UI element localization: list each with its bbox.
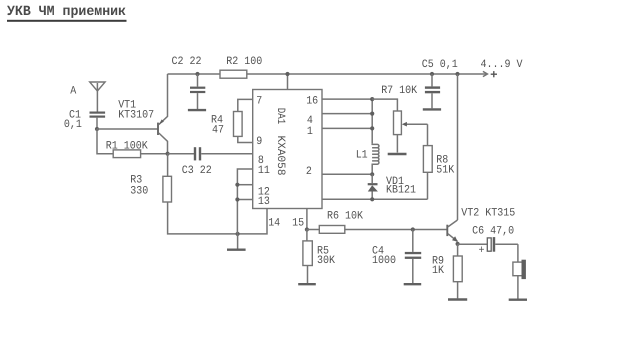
- capacitor C5 0,1: [422, 59, 458, 109]
- wire top supply rail: [168, 73, 488, 75]
- node antenna/C1/base junction: [95, 127, 99, 131]
- svg-text:A: A: [70, 85, 76, 97]
- wire base of VT1: [97, 128, 158, 130]
- svg-text:KXA058: KXA058: [274, 136, 286, 176]
- svg-text:9: 9: [256, 136, 262, 148]
- svg-text:47: 47: [212, 124, 224, 136]
- svg-text:L1: L1: [356, 150, 368, 162]
- capacitor C4 1000: [372, 230, 421, 285]
- node VT2 emitter: [456, 242, 460, 246]
- node C5 on rail: [430, 72, 434, 76]
- node VT2 collector branch on rail: [455, 72, 459, 76]
- svg-text:C6 47,0: C6 47,0: [472, 226, 514, 238]
- resistor R9 1K: [432, 244, 467, 300]
- svg-text:15: 15: [292, 217, 304, 229]
- svg-text:4...9 V: 4...9 V: [481, 59, 523, 71]
- svg-text:DA1: DA1: [274, 108, 286, 125]
- resistor R4 47 with pin7/pin9 wires: [211, 99, 253, 142]
- resistor R3 330: [130, 154, 267, 234]
- svg-text:13: 13: [258, 196, 270, 208]
- svg-text:R6 10K: R6 10K: [327, 211, 363, 223]
- resistor R8 51K: [423, 124, 454, 199]
- wire pins 11 12 13 bus: [237, 169, 252, 234]
- svg-text:C2 22: C2 22: [172, 56, 202, 68]
- svg-text:1K: 1K: [432, 265, 444, 277]
- svg-text:7: 7: [256, 96, 262, 108]
- svg-text:2: 2: [306, 166, 312, 178]
- op IC DA1 KXA058: [253, 90, 322, 209]
- transistor VT2 KT315: [447, 207, 515, 241]
- resistor R6 10K: [307, 211, 447, 234]
- capacitor C3 22: [168, 147, 253, 177]
- supply arrow + label 4...9 V: [481, 59, 523, 77]
- node ground line under IC: [236, 232, 240, 236]
- svg-text:30K: 30K: [317, 255, 335, 267]
- svg-text:KT3107: KT3107: [118, 109, 154, 121]
- svg-text:R2 100: R2 100: [226, 56, 262, 68]
- wire varicap net bottom: [322, 198, 428, 200]
- wire C1 node down to R1: [97, 129, 113, 154]
- svg-text:1: 1: [307, 126, 313, 138]
- node collector VT1 / R1 / R3 / C3: [166, 152, 170, 156]
- svg-text:УКВ ЧМ приемник: УКВ ЧМ приемник: [7, 4, 126, 20]
- node pin2/L1/VD1: [370, 172, 374, 176]
- ground under IC: [227, 234, 246, 250]
- svg-text:R3: R3: [130, 174, 142, 186]
- svg-text:VT2 KT315: VT2 KT315: [461, 207, 515, 219]
- capacitor C1 0,1: [64, 110, 105, 131]
- svg-text:11: 11: [258, 165, 270, 177]
- wire pin16 to junction: [322, 98, 372, 100]
- wire pin 15 down: [306, 209, 308, 230]
- node C2 on rail: [195, 72, 199, 76]
- svg-text:R7 10K: R7 10K: [381, 85, 417, 97]
- svg-text:C5 0,1: C5 0,1: [422, 59, 458, 71]
- transistor VT1 KT3107: [118, 74, 167, 154]
- wire pin1 to junction: [322, 127, 372, 129]
- inductor L1: [356, 143, 379, 174]
- node pin1 junction: [370, 126, 374, 130]
- diode VD1 KB121 varicap: [368, 174, 417, 199]
- svg-text:+: +: [479, 245, 485, 257]
- capacitor C6 47,0 electrolytic: [458, 226, 518, 258]
- wire junction bus vertical: [371, 99, 373, 143]
- node VD1 anode: [370, 197, 374, 201]
- wire pin2 to L1 bottom: [322, 173, 372, 175]
- resistor R2 100: [220, 56, 263, 78]
- wire IC power pin to rail: [287, 74, 289, 90]
- resistor R1 100K: [106, 141, 168, 158]
- svg-text:C3 22: C3 22: [182, 165, 212, 177]
- svg-text:330: 330: [130, 186, 148, 198]
- wire pin4 to junction: [322, 113, 372, 115]
- node C4 tap: [411, 227, 415, 231]
- svg-text:R1 100K: R1 100K: [106, 141, 148, 153]
- svg-text:16: 16: [306, 96, 318, 108]
- svg-text:51K: 51K: [436, 164, 454, 176]
- wire rail down to VT2 collector: [457, 74, 459, 220]
- svg-text:KB121: KB121: [386, 185, 416, 197]
- resistor R5 30K: [298, 230, 335, 285]
- node pin13 junction: [235, 197, 239, 201]
- node pin4 junction: [370, 112, 374, 116]
- antenna A: [70, 82, 105, 112]
- capacitor C2 22: [172, 56, 207, 110]
- speaker: [509, 244, 527, 300]
- resistor R7 10K potentiometer: [372, 85, 427, 154]
- title УКВ ЧМ приемник: [7, 4, 127, 22]
- svg-text:1000: 1000: [372, 255, 396, 267]
- svg-text:14: 14: [268, 217, 280, 229]
- node IC power on rail: [285, 72, 289, 76]
- node pin16 junction: [370, 97, 374, 101]
- node pin15/R5/R6: [305, 227, 309, 231]
- svg-text:0,1: 0,1: [64, 119, 82, 131]
- node pin12 junction: [235, 183, 239, 187]
